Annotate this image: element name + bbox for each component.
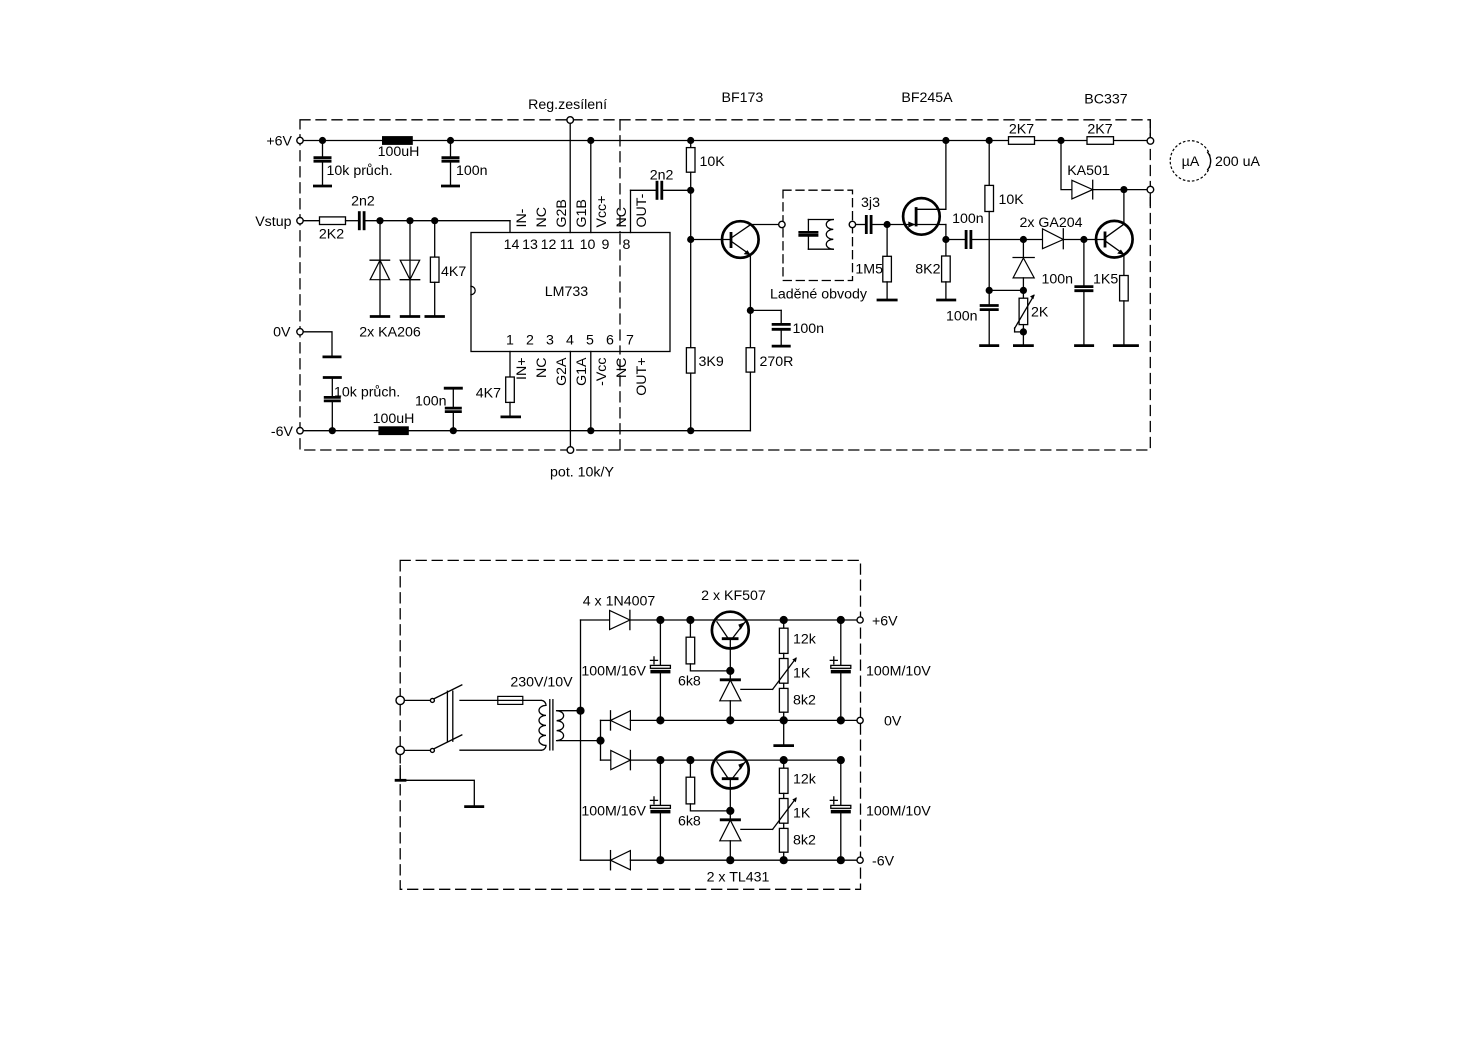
terminal Reg.zesileni: [528, 97, 607, 123]
transistor KF507 first: [712, 612, 749, 671]
capacitor 100M/16V first: [581, 620, 670, 720]
transistor KF507 second: [712, 752, 749, 811]
svg-text:Reg.zesílení: Reg.zesílení: [528, 97, 607, 113]
wire 0V to ground: [304, 332, 342, 357]
resistor 8k2 first: [779, 688, 816, 720]
svg-text:1: 1: [506, 333, 514, 349]
wire center column: [600, 720, 602, 760]
svg-text:2K7: 2K7: [1087, 121, 1112, 137]
wire mains bottom: [460, 749, 541, 751]
svg-text:OUT-: OUT-: [634, 193, 650, 227]
svg-text:G1A: G1A: [574, 357, 590, 386]
svg-text:-Vcc: -Vcc: [594, 358, 610, 386]
svg-text:IN-: IN-: [514, 208, 530, 227]
resistor 1M5: [855, 225, 897, 301]
resistor 8K2: [915, 240, 956, 301]
switch contacts: [430, 685, 461, 753]
svg-text:12k: 12k: [793, 632, 817, 648]
svg-text:1K: 1K: [793, 666, 811, 682]
svg-text:100n: 100n: [952, 211, 984, 227]
svg-text:100M/10V: 100M/10V: [866, 664, 931, 680]
svg-text:100M/10V: 100M/10V: [866, 804, 931, 820]
inductor 100uH top: [378, 136, 420, 160]
svg-text:2 x KF507: 2 x KF507: [701, 588, 766, 604]
svg-text:0V: 0V: [273, 325, 291, 341]
resistor 12k second: [779, 760, 816, 798]
svg-text:2K: 2K: [1031, 304, 1049, 320]
node dot BC337 base net: [1080, 236, 1087, 243]
terminal +6V out: [857, 613, 898, 629]
svg-text:100M/16V: 100M/16V: [581, 664, 646, 680]
svg-text:10K: 10K: [999, 192, 1025, 208]
svg-text:12: 12: [541, 237, 557, 253]
diode KA501: [1061, 141, 1147, 199]
terminal output minus: [1147, 186, 1154, 193]
svg-text:100uH: 100uH: [373, 411, 415, 427]
svg-text:3K9: 3K9: [699, 354, 724, 370]
resistor 1K5: [1093, 254, 1139, 345]
inductor 100uH bottom: [373, 411, 415, 435]
node dot emitter junction: [747, 307, 754, 314]
svg-text:8k2: 8k2: [793, 833, 816, 849]
svg-text:6k8: 6k8: [678, 673, 701, 689]
diode 2x GA204: [1019, 215, 1082, 249]
node dot secondary top: [576, 707, 584, 715]
node dots on -6V rail: [329, 427, 695, 434]
wire 100n to diode column: [989, 289, 1023, 291]
node dot KA501 to collector: [1120, 186, 1127, 193]
resistor 8k2 second: [779, 828, 816, 860]
resistor 4K7 pin1: [476, 352, 521, 417]
svg-text:Vstup: Vstup: [255, 214, 291, 230]
wire Vstup input: [304, 220, 320, 222]
wire G1B pin 11 to Reg terminal: [569, 124, 571, 233]
terminal +6V: [297, 137, 303, 143]
resistor 6k8 second: [678, 760, 730, 829]
terminal -6V out: [857, 853, 895, 869]
resistor 6k8 first: [678, 620, 730, 689]
node dot secondary bottom: [596, 737, 604, 745]
svg-text:10: 10: [580, 237, 596, 253]
svg-text:8K2: 8K2: [915, 261, 940, 277]
wire Vcc+ pin 10 to +6V: [590, 141, 592, 233]
wire G1A pin 4 to pot terminal: [569, 352, 571, 447]
svg-text:µA: µA: [1182, 154, 1200, 170]
terminal pot 10k/Y: [550, 447, 614, 481]
svg-text:3: 3: [546, 333, 554, 349]
svg-text:1M5: 1M5: [855, 261, 883, 277]
svg-text:100n: 100n: [456, 163, 488, 179]
trimmer 1K second: [773, 797, 811, 829]
IC pin labels bottom: [514, 357, 650, 396]
svg-text:2n2: 2n2: [650, 167, 674, 183]
capacitor 100n top: [441, 141, 488, 187]
node dot KF507 second base: [726, 807, 734, 815]
capacitor 100M/16V second: [581, 760, 670, 860]
svg-text:KA501: KA501: [1067, 163, 1110, 179]
capacitor 100n bottom: [415, 388, 463, 431]
capacitor 3j3: [856, 195, 880, 234]
svg-text:3j3: 3j3: [861, 195, 880, 211]
terminal tank left: [779, 221, 785, 227]
svg-text:11: 11: [560, 237, 575, 253]
resistor 2K7 first: [1009, 121, 1035, 144]
svg-text:6k8: 6k8: [678, 813, 701, 829]
node dot 10K to 100n: [986, 287, 993, 294]
TL431 first: [720, 671, 773, 721]
TL431 second: [707, 811, 773, 886]
svg-text:G1B: G1B: [574, 199, 590, 227]
capacitor 100n detector: [946, 306, 999, 346]
svg-text:2K2: 2K2: [319, 226, 344, 242]
terminal Vstup: [297, 218, 303, 224]
svg-text:7: 7: [626, 333, 634, 349]
stage divider dashed line: [619, 120, 621, 450]
diode D3: [601, 751, 631, 770]
wire 2K2 to 2n2: [346, 220, 359, 222]
terminal 0V out: [857, 713, 902, 729]
LC tank symbol: [798, 220, 833, 250]
fuse: [498, 696, 523, 704]
svg-text:100n: 100n: [793, 321, 825, 337]
node dots on Vstup line: [376, 217, 438, 224]
wire -6V rail: [304, 430, 750, 432]
terminal output plus: [1147, 138, 1154, 145]
wire rectifier left column: [580, 620, 582, 860]
svg-text:4K7: 4K7: [476, 385, 501, 401]
svg-text:IN+: IN+: [514, 358, 530, 380]
transistor BF245A JFET: [903, 141, 946, 235]
diode KA206 B: [359, 221, 421, 341]
svg-text:100M/16V: 100M/16V: [581, 804, 646, 820]
svg-text:1K: 1K: [793, 806, 811, 822]
svg-text:10k průch.: 10k průch.: [334, 385, 400, 401]
wire JFET source down: [945, 225, 947, 240]
svg-text:100n: 100n: [415, 393, 447, 409]
svg-text:4 x 1N4007: 4 x 1N4007: [583, 594, 656, 610]
svg-text:10k průch.: 10k průch.: [327, 163, 393, 179]
transistor BF173: [722, 221, 759, 258]
svg-text:NC: NC: [534, 358, 550, 379]
resistor 2K7 second: [1087, 121, 1114, 144]
plug poles: [447, 691, 452, 741]
svg-text:2n2: 2n2: [351, 193, 375, 209]
svg-text:NC: NC: [614, 207, 630, 228]
wire -Vcc pin 5 to -6V rail: [590, 352, 592, 431]
chassis ground left: [395, 766, 485, 807]
node dot 2n2 junction: [687, 187, 694, 194]
svg-text:2K7: 2K7: [1009, 121, 1034, 137]
svg-text:270R: 270R: [760, 354, 794, 370]
capacitor 10k pruch. feedthrough top: [313, 141, 393, 187]
svg-text:-6V: -6V: [872, 853, 895, 869]
wire 2n2 to 10K column: [663, 189, 691, 191]
svg-text:G2B: G2B: [554, 199, 570, 227]
capacitor 2n2 input: [351, 193, 375, 230]
wire 0V rail: [630, 719, 856, 721]
wire 10K column down: [690, 172, 692, 348]
capacitor 100M/10V second: [830, 760, 931, 860]
capacitor 100n emitter bypass: [750, 310, 824, 346]
IC pin numbers bottom row: [506, 333, 634, 349]
wire signal row to BC337 base: [972, 239, 1104, 241]
svg-text:BF245A: BF245A: [901, 90, 953, 106]
meter uA: [1170, 141, 1260, 181]
wire mains leads: [405, 700, 431, 750]
node dots rails: [656, 616, 845, 864]
diode D4: [581, 851, 631, 870]
terminal -6V: [297, 428, 303, 434]
node dot diode bottom: [1020, 287, 1027, 294]
svg-text:8: 8: [623, 237, 631, 253]
svg-text:100n: 100n: [1041, 271, 1073, 287]
terminal tank right: [849, 221, 855, 227]
IC pin labels top: [514, 193, 650, 227]
terminal mains N: [396, 746, 404, 754]
wire Vstup line to pin 14: [366, 221, 511, 233]
resistor 4K7 input: [425, 221, 467, 317]
svg-text:13: 13: [522, 237, 538, 253]
resistor 10K collector load: [686, 141, 725, 173]
wire plus raw rail: [630, 619, 857, 621]
trimmer 2K: [1013, 294, 1049, 345]
svg-text:4: 4: [566, 333, 574, 349]
wire minus input rail: [630, 759, 840, 761]
terminal 0V: [297, 329, 303, 335]
svg-text:200 uA: 200 uA: [1215, 154, 1261, 170]
svg-text:-6V: -6V: [271, 424, 294, 440]
svg-text:+6V: +6V: [872, 613, 898, 629]
svg-text:Laděné obvody: Laděné obvody: [770, 287, 868, 303]
wire -6V rail: [630, 859, 856, 861]
wire +6V rail: [304, 140, 1009, 142]
node junction dots on +6V rail: [319, 137, 1065, 144]
svg-text:100n: 100n: [946, 308, 978, 324]
power supply enclosure dashed border: [400, 560, 860, 889]
svg-text:14: 14: [504, 237, 520, 253]
capacitor 2n2 feedback: [650, 167, 674, 200]
diode D2: [601, 711, 631, 730]
ground stub below 0V: [773, 720, 794, 745]
svg-text:2x KA206: 2x KA206: [359, 324, 421, 340]
svg-text:4K7: 4K7: [441, 264, 466, 280]
diode D1: [581, 610, 630, 629]
svg-text:LM733: LM733: [545, 284, 588, 300]
svg-text:2: 2: [526, 333, 534, 349]
svg-text:12k: 12k: [793, 772, 817, 788]
svg-text:6: 6: [606, 333, 614, 349]
wire OUT- pin 8: [631, 190, 656, 232]
node dot source junction: [942, 236, 949, 243]
svg-text:+6V: +6V: [266, 133, 292, 149]
svg-text:OUT+: OUT+: [634, 358, 650, 396]
svg-text:0V: 0V: [884, 713, 902, 729]
svg-text:BF173: BF173: [721, 90, 763, 106]
capacitor 100M/10V first: [830, 620, 931, 720]
node dot KF507 base: [726, 667, 734, 675]
node dot BF173 base junction: [687, 236, 694, 243]
IC LM733 body: [471, 233, 670, 352]
resistor 3K9: [686, 348, 723, 431]
wire 3j3 to JFET gate and source: [872, 224, 946, 226]
resistor 2K2: [319, 217, 346, 242]
capacitor 100n base: [1041, 240, 1094, 346]
svg-text:10K: 10K: [700, 154, 726, 170]
svg-text:2x GA204: 2x GA204: [1019, 215, 1082, 231]
svg-text:5: 5: [586, 333, 594, 349]
svg-text:BC337: BC337: [1084, 91, 1127, 107]
svg-text:pot. 10k/Y: pot. 10k/Y: [550, 465, 614, 481]
svg-text:1K5: 1K5: [1093, 271, 1118, 287]
IC pin numbers top row: [504, 237, 631, 253]
diode detector vertical: [1013, 240, 1034, 298]
tuned circuits dashed box: [770, 190, 868, 302]
diode KA206 A: [370, 221, 390, 317]
svg-text:G2A: G2A: [554, 357, 570, 386]
svg-text:230V/10V: 230V/10V: [510, 674, 573, 690]
transformer 230V/10V: [510, 674, 597, 750]
wire to fuse: [460, 699, 541, 701]
svg-text:100uH: 100uH: [378, 144, 420, 160]
trimmer 1K first: [773, 657, 811, 689]
resistor 270R: [746, 348, 793, 431]
amplifier enclosure dashed border: [300, 120, 1150, 450]
node dot signal GA204 junction: [1020, 236, 1027, 243]
node dot gate junction: [884, 221, 891, 228]
svg-text:NC: NC: [614, 358, 630, 379]
svg-text:9: 9: [602, 237, 610, 253]
svg-text:2 x TL431: 2 x TL431: [707, 870, 770, 886]
wire BF173 emitter down: [749, 255, 751, 348]
resistor 10K detector bias: [985, 141, 1024, 305]
resistor 12k first: [779, 620, 816, 659]
wire BF173 collector to tank: [750, 224, 778, 226]
svg-text:8k2: 8k2: [793, 693, 816, 709]
capacitor 10k pruch. feedthrough bottom: [323, 378, 400, 431]
capacitor 100n coupling: [946, 211, 984, 249]
wire BF173 base: [691, 239, 730, 241]
wire +6V rail right segments: [1035, 140, 1147, 142]
svg-text:Vcc+: Vcc+: [594, 196, 610, 228]
transistor BC337: [1096, 190, 1133, 258]
svg-text:NC: NC: [534, 207, 550, 228]
terminal mains L: [396, 696, 404, 704]
node dot trimmer wiper: [1020, 328, 1027, 335]
